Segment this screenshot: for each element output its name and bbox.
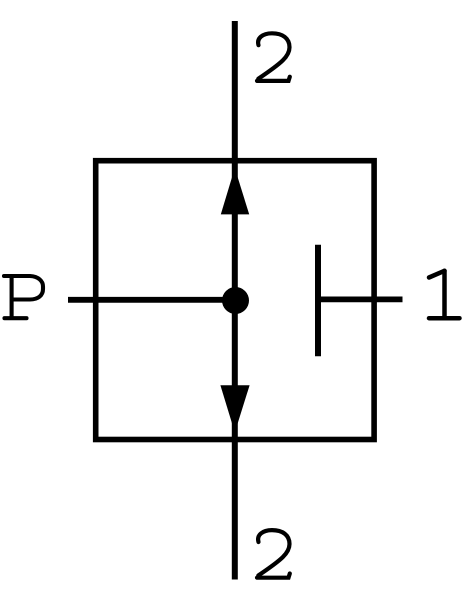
label 2 (top port) [257, 33, 290, 81]
label 2 (bottom port) [257, 530, 290, 578]
wire: port 2 vertical line (top to bottom through valve) [232, 21, 238, 580]
label 1 (right port) [429, 271, 460, 318]
label P [4, 276, 43, 318]
blocked port bar (port 1 plug) [315, 245, 321, 357]
arrow: downward flow [220, 385, 249, 432]
valve body (square envelope) [96, 161, 374, 440]
node: junction dot [222, 287, 249, 314]
wire: port 1 horizontal line [318, 296, 403, 302]
arrow: upward flow [221, 168, 249, 214]
wire: port P horizontal line [68, 297, 236, 303]
